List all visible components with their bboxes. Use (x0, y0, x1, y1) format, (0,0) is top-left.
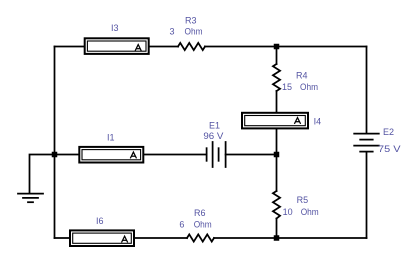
svg-text:10: 10 (283, 207, 293, 217)
wire right rail lower (366, 152, 368, 238)
node junction bottom (R5/R6) (274, 235, 280, 241)
label R4 value 15 Ohm (282, 82, 318, 92)
svg-text:I4: I4 (314, 117, 322, 127)
svg-text:R6: R6 (194, 208, 206, 218)
svg-text:R5: R5 (297, 195, 309, 205)
node junction top (R3/R4) (274, 44, 280, 50)
svg-text:3: 3 (169, 27, 174, 37)
svg-text:E1: E1 (209, 120, 220, 130)
resistor R3 (178, 43, 205, 50)
label R5 value 10 Ohm (283, 207, 319, 217)
battery E1 (207, 142, 226, 167)
ground (18, 194, 43, 203)
ammeter I4 (242, 113, 308, 129)
ammeter I6 (70, 230, 134, 246)
svg-text:R4: R4 (296, 71, 308, 81)
svg-text:Ohm: Ohm (301, 207, 319, 217)
resistor R5 (273, 191, 280, 219)
wire middle row E1-to-junction (226, 154, 277, 156)
wire left rail (54, 47, 56, 239)
label R3 value 3 Ohm (169, 27, 202, 37)
wire top rail left segment (55, 46, 85, 48)
wire mid vertical junction-to-R4 (276, 47, 278, 65)
label R6 value 6 Ohm (179, 220, 211, 230)
svg-text:15: 15 (282, 82, 292, 92)
wire ground tap (30, 155, 55, 194)
battery E2 (354, 134, 379, 152)
svg-text:I6: I6 (96, 216, 104, 226)
svg-text:I3: I3 (111, 23, 119, 33)
svg-text:Ohm: Ohm (194, 220, 212, 230)
resistor R6 (187, 234, 214, 241)
resistor R4 (273, 64, 280, 91)
svg-text:Ohm: Ohm (300, 82, 318, 92)
wire middle row I1-to-E1 (144, 154, 207, 156)
svg-text:96 V: 96 V (203, 131, 223, 141)
wire bottom rail (55, 237, 71, 239)
wire top rail I3-to-R3 (149, 46, 178, 48)
wire mid vertical I4-to-junction (276, 129, 278, 155)
wire top rail R3-to-corner (205, 46, 367, 48)
wire bottom rail I6-to-R6 (134, 237, 187, 239)
svg-text:I1: I1 (107, 133, 115, 143)
wire mid vertical R4-to-I4 (276, 91, 278, 113)
svg-text:Ohm: Ohm (185, 27, 203, 37)
ammeter I3 (85, 38, 149, 54)
svg-text:R3: R3 (185, 15, 197, 25)
wire right rail upper (366, 47, 368, 134)
node junction middle (E1/R5) (274, 152, 280, 158)
svg-text:6: 6 (179, 220, 184, 230)
wire middle row junction-to-I1 (55, 154, 80, 156)
wire bottom rail R6-to-corner (214, 237, 367, 239)
svg-text:75 V: 75 V (378, 144, 401, 154)
svg-text:E2: E2 (383, 127, 394, 137)
ammeter I1 (79, 147, 143, 163)
wire mid vertical junction-to-R5 (276, 155, 278, 192)
wire mid vertical R5-to-junction (276, 219, 278, 239)
node junction left (ground/I1) (52, 152, 58, 158)
